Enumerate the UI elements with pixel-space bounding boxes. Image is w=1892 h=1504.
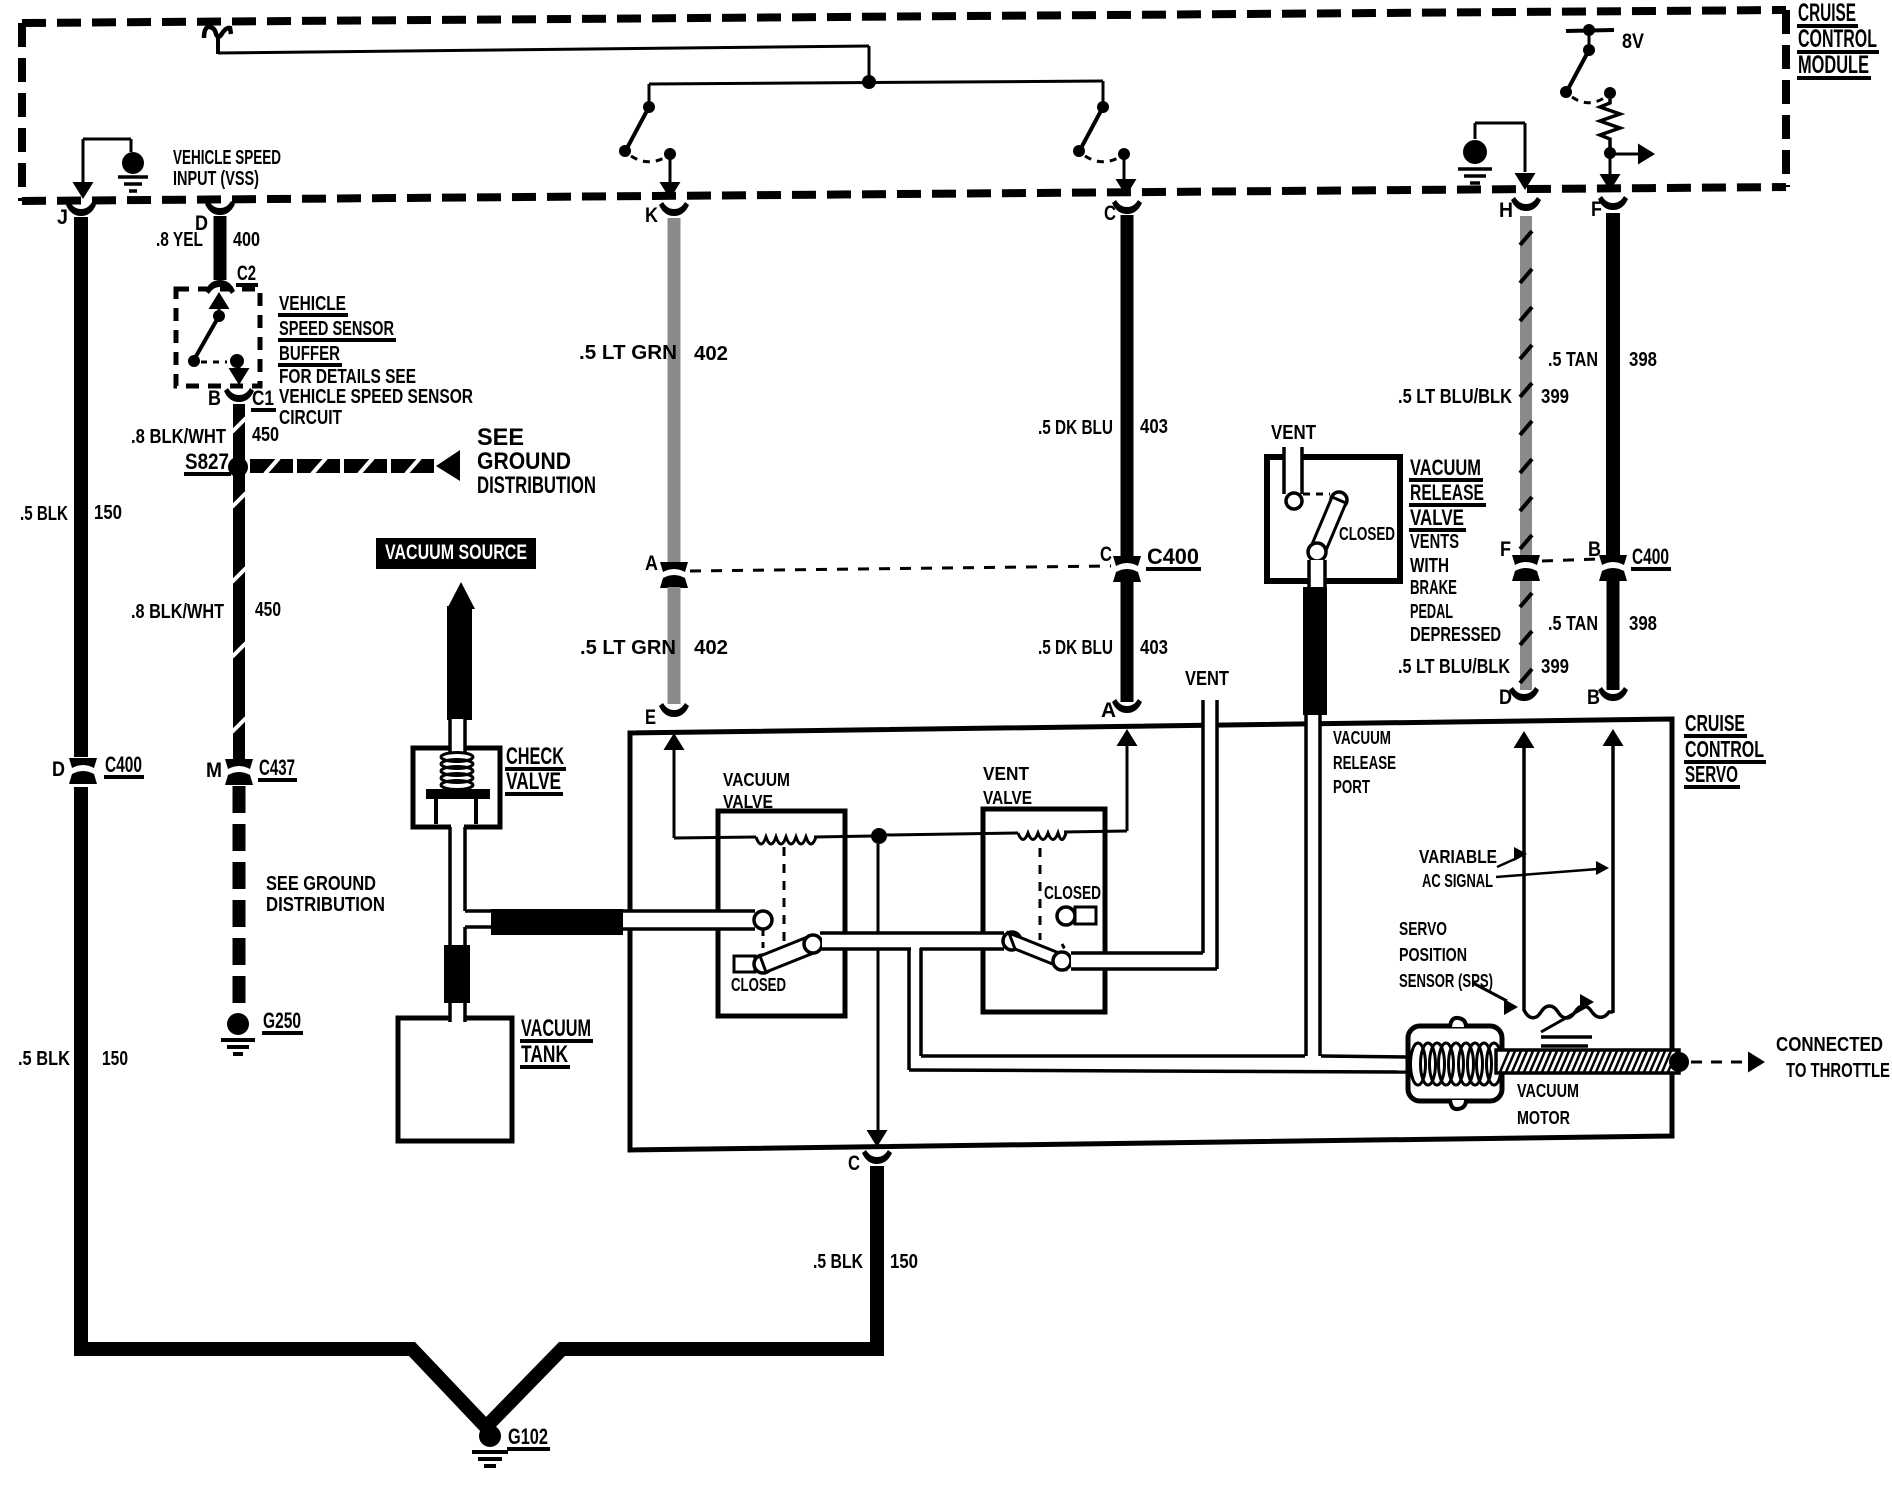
connector D into servo xyxy=(1499,686,1539,709)
connector C400 on H wire (pin F) xyxy=(1500,538,1540,581)
svg-text:.5 TAN: .5 TAN xyxy=(1548,349,1598,371)
svg-text:SERVO: SERVO xyxy=(1685,761,1738,787)
label SEE GROUND DISTRIBUTION (left) xyxy=(266,873,385,916)
vehicle speed sensor buffer box xyxy=(176,289,260,386)
connector C400 on J wire (pin D) xyxy=(52,752,144,787)
svg-text:CRUISE: CRUISE xyxy=(1685,710,1745,736)
svg-text:VALVE: VALVE xyxy=(723,792,773,812)
ground G250 xyxy=(221,1008,303,1054)
svg-text:PORT: PORT xyxy=(1333,777,1370,797)
coil L1 vacuum valve xyxy=(756,837,816,844)
svg-text:D: D xyxy=(52,758,65,781)
label .8 BLK/WHT 450 lower xyxy=(131,599,281,623)
connector C400 on C wire xyxy=(1100,543,1201,582)
svg-text:M: M xyxy=(206,759,222,782)
wire 398 lower segment xyxy=(1607,581,1620,690)
connector B into servo xyxy=(1587,686,1628,709)
svg-text:E: E xyxy=(645,706,656,729)
label VACUUM TANK xyxy=(520,1015,593,1068)
svg-text:MODULE: MODULE xyxy=(1798,51,1869,79)
svg-text:CONTROL: CONTROL xyxy=(1798,25,1877,53)
svg-text:C400: C400 xyxy=(105,752,142,777)
wire 403 .5 DK BLU lower segment xyxy=(1121,581,1134,702)
tube release valve down xyxy=(1309,560,1325,590)
svg-text:DISTRIBUTION: DISTRIBUTION xyxy=(477,472,596,499)
svg-text:INPUT (VSS): INPUT (VSS) xyxy=(173,168,259,190)
vacuum motor spring xyxy=(1411,1043,1502,1085)
label .5 DK BLU 403 upper xyxy=(1038,416,1168,439)
C400 dashed connector line right xyxy=(1542,559,1598,561)
striped wire from S827 to ground distribution arrow xyxy=(250,450,460,481)
svg-text:402: 402 xyxy=(694,343,728,365)
svg-text:.8 BLK/WHT: .8 BLK/WHT xyxy=(131,426,226,448)
vent valve dashed plunger links xyxy=(1040,848,1067,953)
8V supply and switch S3 xyxy=(1560,24,1644,103)
svg-text:.8 YEL: .8 YEL xyxy=(156,229,203,251)
svg-text:WITH: WITH xyxy=(1410,555,1449,577)
svg-text:.5 LT GRN: .5 LT GRN xyxy=(579,342,677,364)
svg-text:VACUUM: VACUUM xyxy=(1517,1081,1579,1101)
svg-text:TANK: TANK xyxy=(521,1041,568,1068)
svg-text:VENTS: VENTS xyxy=(1410,531,1459,553)
svg-text:C400: C400 xyxy=(1632,544,1669,569)
wire 399 lower segment xyxy=(1520,581,1532,690)
cruise control module box xyxy=(22,10,1786,201)
wire 400 .8 YEL (D to C2) xyxy=(214,216,227,280)
connector C437 (pin M) xyxy=(206,755,297,785)
svg-text:.5 DK BLU: .5 DK BLU xyxy=(1038,637,1113,659)
svg-text:403: 403 xyxy=(1140,637,1168,659)
svg-text:G250: G250 xyxy=(263,1008,301,1033)
svg-text:C1: C1 xyxy=(252,387,274,410)
svg-text:450: 450 xyxy=(255,599,281,621)
svg-text:150: 150 xyxy=(94,502,122,524)
label .5 TAN 398 upper xyxy=(1548,349,1657,371)
tube vacuum valve to vent valve xyxy=(820,933,1004,950)
label .5 DK BLU 403 lower xyxy=(1038,637,1168,659)
svg-text:DEPRESSED: DEPRESSED xyxy=(1410,624,1501,646)
svg-text:.5 BLK: .5 BLK xyxy=(813,1251,863,1273)
connector E into servo xyxy=(645,703,689,729)
tube into vacuum tank xyxy=(450,1003,465,1022)
label .5 BLK 150 upper xyxy=(20,502,122,525)
svg-text:BRAKE: BRAKE xyxy=(1410,577,1457,599)
svg-text:C437: C437 xyxy=(259,755,295,780)
label SERVO POSITION SENSOR (SPS) with arrow xyxy=(1399,919,1518,1015)
label CONNECTED TO THROTTLE xyxy=(1776,1034,1890,1082)
wire 150 .5 BLK (J) main run xyxy=(81,217,879,1427)
coil L2 vent valve xyxy=(1018,833,1066,840)
svg-text:.8 BLK/WHT: .8 BLK/WHT xyxy=(131,601,224,623)
wire D to SPS xyxy=(1514,731,1535,1011)
vent valve closed port xyxy=(1057,907,1096,925)
svg-text:K: K xyxy=(645,204,658,227)
hose to vacuum valve (black) xyxy=(491,909,623,935)
label VEHICLE SPEED INPUT (VSS) xyxy=(173,147,281,190)
tube vent valve to vent opening xyxy=(1071,700,1218,970)
pin H connector xyxy=(1499,197,1541,222)
node junction bus xyxy=(862,75,876,89)
wire coil to junction xyxy=(814,836,873,837)
label VACUUM RELEASE PORT xyxy=(1333,728,1396,797)
label SEE GROUND DISTRIBUTION (right of S827) xyxy=(477,424,596,499)
svg-text:C: C xyxy=(1100,543,1112,566)
svg-text:FOR DETAILS SEE: FOR DETAILS SEE xyxy=(279,366,416,388)
label .5 BLK 150 lower xyxy=(18,1048,128,1070)
pin F connector xyxy=(1591,196,1628,221)
release valve pivot circle xyxy=(1331,492,1347,508)
label VACUUM VALVE xyxy=(723,770,790,812)
svg-text:150: 150 xyxy=(890,1251,918,1273)
label .5 TAN 398 lower xyxy=(1548,613,1657,635)
svg-text:SPEED SENSOR: SPEED SENSOR xyxy=(279,318,394,340)
tube vacuum release port xyxy=(1306,714,1320,1056)
svg-text:TO THROTTLE: TO THROTTLE xyxy=(1786,1060,1890,1082)
svg-text:.5 LT GRN: .5 LT GRN xyxy=(580,637,676,659)
node coil junction xyxy=(871,828,887,844)
svg-text:C: C xyxy=(848,1152,860,1175)
wire 398 .5 TAN upper segment (F) xyxy=(1606,213,1620,557)
ground symbol inside module (right) xyxy=(1458,123,1536,190)
svg-text:VACUUM: VACUUM xyxy=(1333,728,1391,748)
hose release valve to servo (black) xyxy=(1303,587,1327,715)
vacuum motor rod to throttle xyxy=(1496,1050,1689,1073)
wire 399 .5 LT BLU/BLK upper segment (H) xyxy=(1520,216,1532,557)
svg-text:403: 403 xyxy=(1140,416,1168,438)
label CRUISE CONTROL MODULE xyxy=(1797,0,1879,79)
wire vertical drop to bus xyxy=(868,46,871,82)
svg-text:DISTRIBUTION: DISTRIBUTION xyxy=(266,894,385,916)
svg-text:MOTOR: MOTOR xyxy=(1517,1108,1570,1128)
label CRUISE CONTROL SERVO xyxy=(1684,710,1766,787)
ground symbol inside module (VSS) xyxy=(73,139,149,199)
vacuum valve closed port xyxy=(734,956,755,972)
svg-text:VEHICLE SPEED SENSOR: VEHICLE SPEED SENSOR xyxy=(279,386,473,408)
wire coil to A pin xyxy=(1064,729,1138,832)
arrow tap to right xyxy=(1610,144,1655,165)
svg-text:VACUUM: VACUUM xyxy=(521,1015,591,1042)
vacuum motor body xyxy=(1408,1018,1502,1109)
svg-text:SEE GROUND: SEE GROUND xyxy=(266,873,376,895)
svg-text:398: 398 xyxy=(1629,613,1657,635)
svg-text:.5 DK BLU: .5 DK BLU xyxy=(1038,417,1113,439)
C400 dashed connector line left xyxy=(690,566,1111,571)
svg-text:VACUUM SOURCE: VACUUM SOURCE xyxy=(385,541,527,564)
svg-text:C2: C2 xyxy=(237,262,256,285)
label .5 BLK 150 bottom xyxy=(813,1251,918,1273)
connector A into servo xyxy=(1101,699,1142,722)
wire junction to vent valve coil xyxy=(885,833,1018,835)
svg-text:F: F xyxy=(1500,538,1511,561)
svg-text:VEHICLE: VEHICLE xyxy=(279,293,346,315)
release valve dashed link xyxy=(1303,493,1330,496)
wire E to vacuum valve coil xyxy=(664,733,757,838)
connector C400 on F wire (pin B) xyxy=(1588,538,1671,581)
svg-text:VARIABLE: VARIABLE xyxy=(1419,847,1497,867)
splice S827 xyxy=(184,449,248,477)
ground G102 xyxy=(472,1424,550,1466)
svg-text:CLOSED: CLOSED xyxy=(1339,524,1395,544)
check valve spring xyxy=(441,753,473,790)
wire 150 .5 BLK (C to ground run) xyxy=(870,1166,884,1356)
svg-text:VENT: VENT xyxy=(1185,668,1229,690)
svg-text:SEE: SEE xyxy=(477,424,524,451)
label vehicle speed sensor buffer text xyxy=(278,293,473,429)
vacuum valve port circle xyxy=(754,911,772,929)
svg-text:A: A xyxy=(645,552,658,575)
svg-text:VEHICLE SPEED: VEHICLE SPEED xyxy=(173,147,281,169)
wire squiggle to VSS input xyxy=(204,27,231,54)
svg-text:GROUND: GROUND xyxy=(477,448,571,475)
svg-text:RELEASE: RELEASE xyxy=(1333,753,1396,773)
svg-text:.5 TAN: .5 TAN xyxy=(1548,613,1598,635)
tube check valve to vacuum valve xyxy=(623,910,755,930)
svg-text:VENT: VENT xyxy=(983,764,1029,784)
svg-text:CLOSED: CLOSED xyxy=(731,975,786,995)
vacuum release valve box xyxy=(1267,457,1400,581)
svg-text:H: H xyxy=(1499,199,1513,222)
tube source to check valve xyxy=(450,719,465,753)
pin C connector xyxy=(1104,200,1142,225)
vacuum source hose arrow xyxy=(447,582,475,609)
tube valves to vacuum motor xyxy=(909,946,1408,1072)
pin D connector xyxy=(195,201,235,235)
wire B to SPS xyxy=(1603,729,1624,1013)
wire long horizontal from VSS to switches xyxy=(218,46,869,53)
switch S2 (vent valve drive) xyxy=(1073,81,1137,196)
svg-text:CLOSED: CLOSED xyxy=(1044,883,1101,903)
label VARIABLE AC SIGNAL with arrows xyxy=(1419,847,1609,891)
pin J connector xyxy=(57,202,96,229)
svg-text:398: 398 xyxy=(1629,349,1657,371)
node junction resistor output xyxy=(1604,147,1616,159)
label .5 LT BLU/BLK 399 upper xyxy=(1398,386,1569,408)
connector C400 on K wire (pin A) xyxy=(645,552,688,588)
tube check valve down to tee xyxy=(450,824,465,946)
wire 402 .5 LT GRN upper segment (K) xyxy=(668,218,681,564)
svg-text:B: B xyxy=(1587,686,1600,709)
cruise control servo box xyxy=(630,719,1672,1150)
svg-text:VENT: VENT xyxy=(1271,422,1316,444)
svg-text:8V: 8V xyxy=(1622,30,1644,53)
vacuum valve dashed plunger links xyxy=(763,847,784,953)
connector C2 xyxy=(205,262,258,294)
label VACUUM SOURCE box xyxy=(376,538,536,569)
svg-text:CRUISE: CRUISE xyxy=(1798,0,1856,27)
label CHECK VALVE xyxy=(505,743,566,795)
svg-text:POSITION: POSITION xyxy=(1399,945,1467,965)
svg-text:PEDAL: PEDAL xyxy=(1410,601,1453,623)
resistor R1 xyxy=(1600,99,1620,150)
label VACUUM MOTOR xyxy=(1517,1081,1579,1128)
label VACUUM RELEASE VALVE VENTS WITH BRAKE PEDAL DEPRESSED xyxy=(1409,455,1501,646)
svg-text:AC SIGNAL: AC SIGNAL xyxy=(1422,871,1493,891)
svg-text:B: B xyxy=(208,387,221,410)
vacuum source hose xyxy=(447,606,472,720)
wire 402 .5 LT GRN lower segment xyxy=(668,587,681,704)
connector C1 (pin B) xyxy=(208,387,276,410)
hose above vacuum tank (black) xyxy=(444,945,470,1003)
svg-text:SERVO: SERVO xyxy=(1399,919,1447,939)
svg-text:.5 LT BLU/BLK: .5 LT BLU/BLK xyxy=(1398,386,1512,408)
SPS resistive element xyxy=(1524,994,1613,1046)
label VENT VALVE xyxy=(983,764,1032,808)
svg-text:.5 LT BLU/BLK: .5 LT BLU/BLK xyxy=(1398,656,1510,678)
check valve disc xyxy=(426,789,490,799)
svg-text:S827: S827 xyxy=(185,449,229,474)
svg-text:CIRCUIT: CIRCUIT xyxy=(279,407,342,429)
svg-text:G102: G102 xyxy=(508,1424,548,1449)
svg-text:.5 BLK: .5 BLK xyxy=(18,1048,70,1070)
svg-text:150: 150 xyxy=(102,1048,128,1070)
svg-text:VALVE: VALVE xyxy=(506,768,561,795)
vent valve port circle xyxy=(1003,932,1021,950)
vent valve armature xyxy=(1009,933,1071,970)
wire 403 .5 DK BLU upper segment (C) xyxy=(1121,215,1134,557)
svg-text:J: J xyxy=(57,206,68,229)
svg-text:BUFFER: BUFFER xyxy=(279,343,340,365)
svg-text:CONTROL: CONTROL xyxy=(1685,736,1764,762)
release valve port circle xyxy=(1286,493,1302,509)
vent valve box xyxy=(983,809,1105,1012)
svg-text:VALVE: VALVE xyxy=(1410,505,1464,530)
dashed wire C437 to G250 xyxy=(233,786,246,1010)
release valve armature xyxy=(1308,497,1346,561)
check valve box xyxy=(413,748,500,827)
svg-text:SENSOR (SPS): SENSOR (SPS) xyxy=(1399,971,1493,991)
svg-text:C400: C400 xyxy=(1147,544,1199,569)
vacuum tank box xyxy=(398,1018,512,1141)
svg-text:450: 450 xyxy=(252,424,279,446)
svg-text:RELEASE: RELEASE xyxy=(1410,480,1484,505)
vacuum valve armature xyxy=(754,935,822,973)
vacuum valve box xyxy=(718,811,845,1016)
check valve seat legs xyxy=(436,799,476,824)
svg-text:402: 402 xyxy=(694,637,728,659)
label .8 YEL 400 xyxy=(156,229,260,251)
svg-text:399: 399 xyxy=(1541,386,1569,408)
svg-text:CHECK: CHECK xyxy=(506,743,564,770)
svg-text:VALVE: VALVE xyxy=(983,788,1032,808)
svg-text:VACUUM: VACUUM xyxy=(1410,455,1481,480)
svg-text:B: B xyxy=(1588,538,1601,561)
dashed link to throttle with arrow xyxy=(1691,1052,1765,1073)
label .8 BLK/WHT 450 upper xyxy=(131,424,279,448)
label .5 LT BLU/BLK 399 lower xyxy=(1398,656,1569,678)
wire switch bus xyxy=(649,81,1103,84)
connector C out of servo xyxy=(848,1150,892,1175)
tube vent into release valve xyxy=(1284,447,1302,494)
wire 450 .8 BLK/WHT upper segment xyxy=(232,404,246,761)
svg-text:400: 400 xyxy=(233,229,260,251)
wire junction to C pin xyxy=(867,844,888,1147)
svg-text:VACUUM: VACUUM xyxy=(723,770,790,790)
label .5 LT GRN 402 upper xyxy=(579,342,728,365)
svg-text:.5 BLK: .5 BLK xyxy=(20,503,68,525)
tube tee branch to servo xyxy=(465,911,492,927)
pin K connector xyxy=(645,202,689,227)
wire resistor to F pin xyxy=(1600,154,1621,191)
svg-text:399: 399 xyxy=(1541,656,1569,678)
label .5 LT GRN 402 lower xyxy=(580,637,728,659)
switch S1 (vacuum valve drive) xyxy=(619,84,681,199)
svg-text:CONNECTED: CONNECTED xyxy=(1776,1034,1883,1056)
